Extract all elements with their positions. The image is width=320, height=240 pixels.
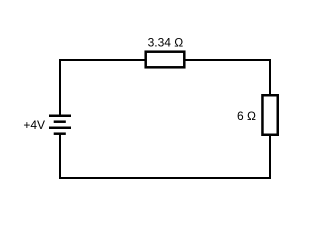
battery B1 plate short upper	[54, 120, 66, 123]
battery B1 plate short bottom	[54, 132, 66, 135]
wire right lower	[269, 135, 271, 179]
svg-text:+4V: +4V	[23, 118, 45, 132]
resistor R2 6 ohm (box)	[262, 95, 277, 135]
label 3.34 ohm	[148, 36, 184, 50]
svg-text:3.34 Ω: 3.34 Ω	[148, 36, 184, 50]
label 6 ohm	[237, 109, 256, 123]
wire right upper	[269, 59, 271, 95]
resistor R1 3.34 ohm (box)	[146, 52, 185, 68]
battery B1 plate long top	[49, 114, 71, 117]
wire left lower	[59, 135, 61, 180]
label +4V	[23, 118, 45, 132]
battery B1 plate long lower	[49, 126, 71, 129]
wire top right segment	[184, 59, 271, 61]
wire bottom	[59, 177, 271, 179]
wire left upper	[59, 59, 61, 115]
wire top left segment	[59, 59, 146, 61]
svg-text:6 Ω: 6 Ω	[237, 109, 256, 123]
